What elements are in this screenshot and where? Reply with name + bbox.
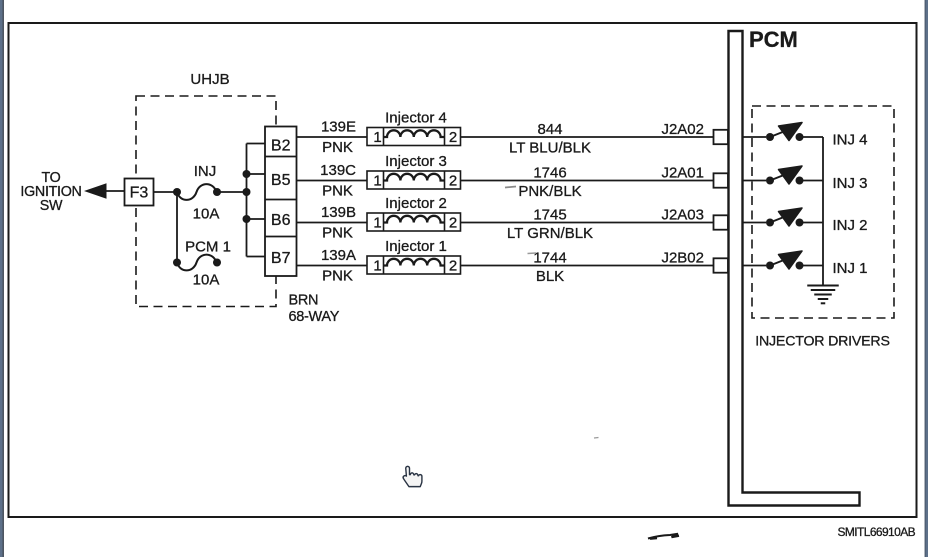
svg-text:BRN: BRN — [289, 293, 319, 309]
svg-text:INJ: INJ — [194, 163, 217, 180]
svg-text:Injector 1: Injector 1 — [385, 238, 447, 255]
svg-text:LT BLU/BLK: LT BLU/BLK — [509, 140, 591, 157]
svg-text:2: 2 — [449, 173, 457, 190]
svg-text:LT GRN/BLK: LT GRN/BLK — [507, 225, 593, 242]
svg-text:139B: 139B — [321, 204, 356, 221]
svg-text:Injector 2: Injector 2 — [385, 195, 447, 212]
svg-text:139A: 139A — [321, 247, 356, 264]
svg-text:INJ 1: INJ 1 — [833, 260, 868, 277]
svg-text:1745: 1745 — [533, 207, 566, 224]
svg-text:2: 2 — [449, 215, 457, 232]
svg-text:PNK: PNK — [322, 139, 353, 156]
svg-text:B2: B2 — [271, 138, 291, 155]
svg-text:BLK: BLK — [536, 268, 564, 285]
svg-text:1744: 1744 — [533, 250, 566, 267]
svg-text:INJ 3: INJ 3 — [833, 175, 868, 192]
svg-text:B7: B7 — [271, 250, 291, 267]
svg-text:68-WAY: 68-WAY — [289, 309, 340, 325]
svg-text:J2A01: J2A01 — [661, 165, 704, 182]
svg-text:PNK: PNK — [322, 183, 353, 200]
svg-text:SMITL66910AB: SMITL66910AB — [837, 525, 915, 539]
svg-text:PNK/BLK: PNK/BLK — [518, 183, 581, 200]
svg-text:Injector 4: Injector 4 — [385, 110, 447, 127]
svg-text:PNK: PNK — [322, 268, 353, 285]
svg-text:B5: B5 — [271, 172, 291, 189]
svg-text:J2B02: J2B02 — [661, 250, 704, 267]
svg-text:2: 2 — [449, 129, 457, 146]
svg-text:PCM: PCM — [749, 27, 798, 52]
svg-text:1: 1 — [373, 173, 381, 190]
svg-text:PNK: PNK — [322, 225, 353, 242]
svg-text:844: 844 — [537, 121, 562, 138]
svg-text:SW: SW — [40, 198, 63, 214]
svg-text:10A: 10A — [193, 206, 220, 223]
svg-text:1: 1 — [373, 215, 381, 232]
svg-text:10A: 10A — [193, 272, 220, 289]
svg-text:1: 1 — [373, 258, 381, 275]
svg-text:J2A02: J2A02 — [661, 121, 704, 138]
svg-text:INJ 2: INJ 2 — [833, 217, 868, 234]
svg-text:2: 2 — [449, 258, 457, 275]
svg-text:PCM 1: PCM 1 — [185, 239, 231, 256]
svg-text:UHJB: UHJB — [190, 71, 229, 88]
svg-text:139E: 139E — [321, 119, 356, 136]
svg-text:1746: 1746 — [533, 165, 566, 182]
svg-text:J2A03: J2A03 — [661, 207, 704, 224]
svg-text:INJECTOR DRIVERS: INJECTOR DRIVERS — [755, 334, 890, 350]
svg-text:139C: 139C — [320, 162, 356, 179]
svg-text:INJ 4: INJ 4 — [833, 132, 868, 149]
svg-text:B6: B6 — [271, 212, 291, 229]
svg-text:F3: F3 — [130, 185, 149, 202]
svg-text:1: 1 — [373, 129, 381, 146]
svg-text:Injector 3: Injector 3 — [385, 153, 447, 170]
